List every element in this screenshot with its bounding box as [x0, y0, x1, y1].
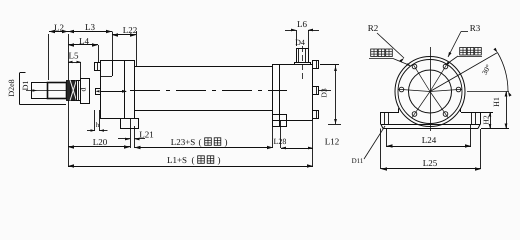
svg-text:): )	[218, 155, 221, 165]
svg-text:h: h	[96, 121, 100, 129]
svg-text:L3: L3	[85, 22, 95, 32]
svg-text:L12: L12	[325, 137, 340, 147]
svg-text:L28: L28	[274, 137, 287, 146]
svg-text:D4: D4	[295, 38, 305, 47]
svg-text:H2: H2	[482, 115, 491, 124]
svg-text:D11: D11	[352, 157, 364, 165]
svg-text:L4: L4	[79, 36, 89, 46]
svg-text:L22: L22	[123, 25, 138, 35]
svg-text:D3: D3	[320, 88, 329, 97]
svg-text:R3: R3	[470, 23, 481, 33]
svg-text:): )	[225, 137, 228, 147]
svg-text:D1: D1	[21, 81, 30, 91]
svg-text:L23+S: L23+S	[171, 137, 196, 147]
svg-text:L1+S: L1+S	[167, 155, 187, 165]
svg-text:(: (	[199, 137, 202, 147]
svg-text:L20: L20	[93, 137, 108, 147]
svg-text:R2: R2	[368, 23, 379, 33]
svg-text:L2: L2	[54, 23, 64, 33]
svg-text:L6: L6	[297, 19, 307, 29]
svg-text:D2e8: D2e8	[7, 79, 16, 96]
svg-text:L24: L24	[422, 135, 437, 145]
svg-text:d: d	[79, 88, 88, 92]
svg-text:H1: H1	[492, 97, 501, 107]
svg-text:L5: L5	[69, 51, 79, 61]
svg-text:(: (	[192, 155, 195, 165]
svg-text:L21: L21	[139, 130, 154, 140]
svg-text:L25: L25	[423, 158, 438, 168]
